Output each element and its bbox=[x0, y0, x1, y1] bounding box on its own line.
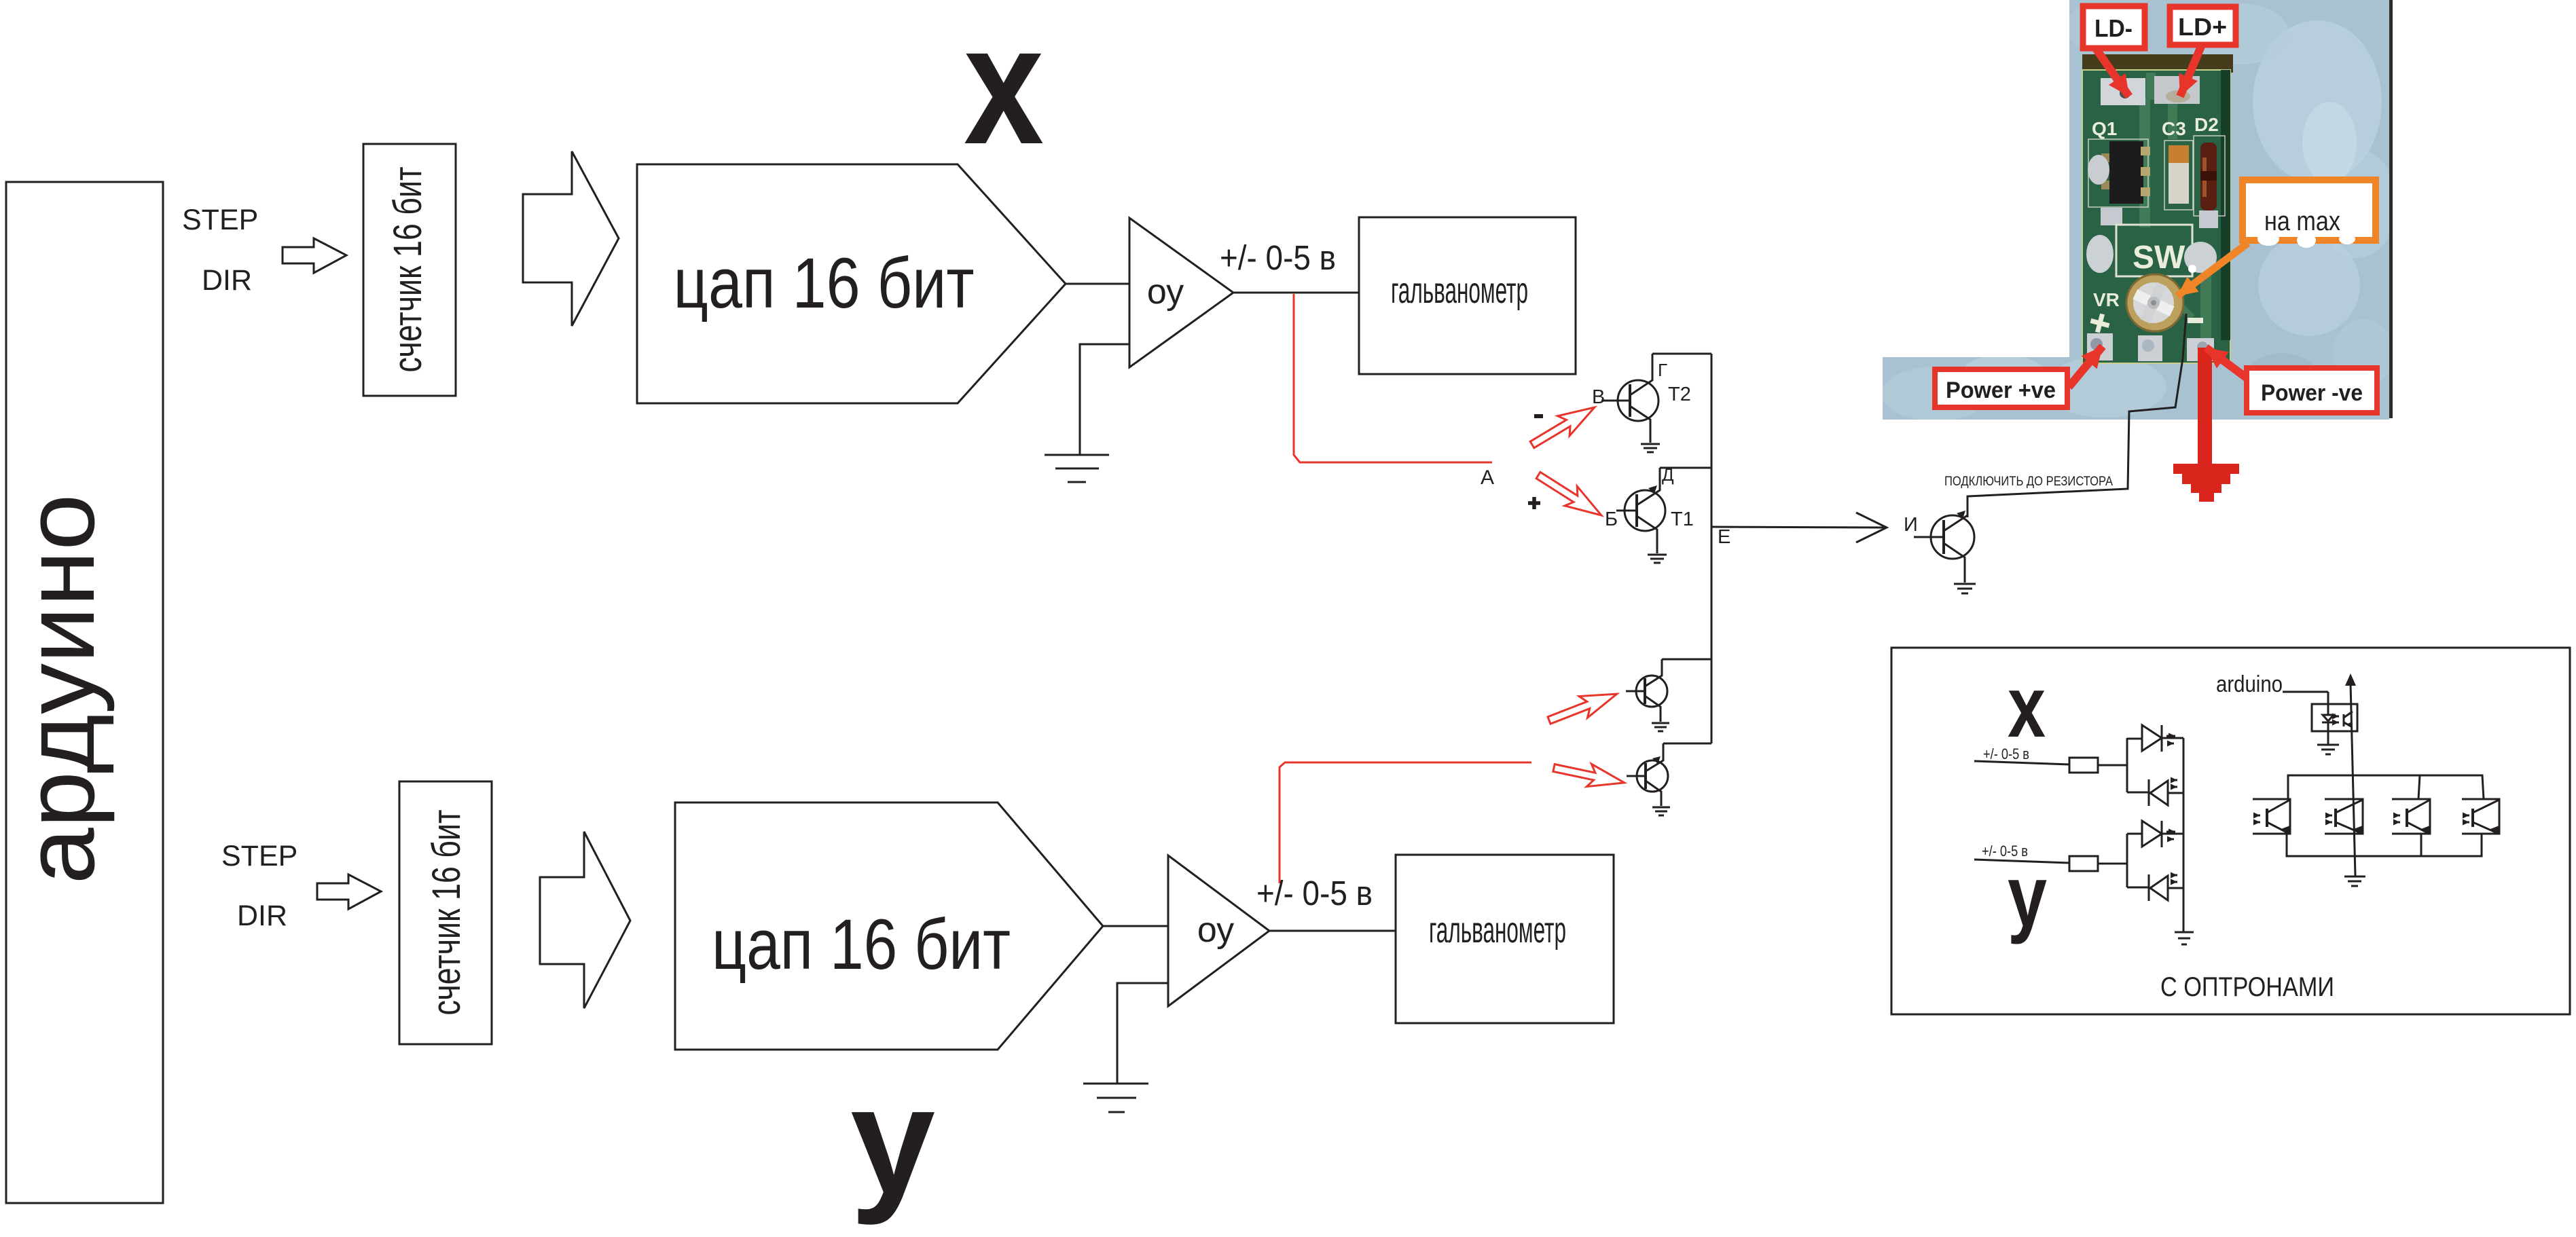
solder blob right bbox=[2184, 242, 2217, 273]
svg-text:у: у bbox=[850, 1054, 935, 1225]
PCB green board bbox=[2082, 70, 2230, 363]
wire Y to diodes bbox=[2098, 863, 2127, 865]
red wire Y to transistors bbox=[1280, 762, 1531, 883]
resistor X bbox=[2069, 758, 2098, 773]
arduino block bbox=[6, 182, 163, 1203]
red arrow to transistor 3 bbox=[1545, 683, 1621, 731]
arrow Power -ve bbox=[2206, 348, 2253, 383]
top rail bbox=[2288, 775, 2484, 799]
bottom rail drop box3 bbox=[2420, 834, 2423, 856]
svg-text:SW: SW bbox=[2133, 240, 2185, 276]
svg-text:цап 16 бит: цап 16 бит bbox=[712, 905, 1011, 984]
ground Y opamp bbox=[1083, 1084, 1148, 1112]
wire opamp inv input X bbox=[1080, 344, 1129, 455]
wire T2 collector to bus (node G) bbox=[1652, 353, 1711, 355]
svg-text:Power -ve: Power -ve bbox=[2261, 380, 2363, 406]
transistor I bbox=[1914, 515, 1974, 583]
plus silk mark bbox=[2088, 312, 2111, 335]
U1 LED bbox=[2322, 692, 2334, 745]
output arrowhead bbox=[1856, 513, 1887, 542]
silkscreen D2 frame bbox=[2194, 136, 2225, 216]
red arrow to B (T1) bbox=[1532, 466, 1608, 525]
svg-text:В: В bbox=[1592, 386, 1605, 408]
svg-text:DIR: DIR bbox=[202, 264, 252, 297]
transistor T2 bbox=[1601, 354, 1658, 443]
bottom rail bbox=[2287, 834, 2482, 856]
DAC pentagon X bbox=[637, 164, 1066, 403]
output wire node E bbox=[1711, 527, 1887, 528]
svg-text:+/- 0-5 в: +/- 0-5 в bbox=[1983, 745, 2029, 762]
Y diode left rail bbox=[2126, 834, 2128, 887]
bottom pad + bbox=[2087, 333, 2113, 361]
svg-text:+/- 0-5 в: +/- 0-5 в bbox=[1256, 874, 1373, 912]
ground mid bottom bbox=[2344, 876, 2365, 886]
silkscreen Q1 frame bbox=[2088, 139, 2148, 207]
svg-text:Д: Д bbox=[1662, 464, 1674, 485]
galvanometer box Y bbox=[1396, 855, 1614, 1023]
ground transistor 3 bbox=[1652, 723, 1669, 731]
minus silk mark bbox=[2188, 318, 2203, 323]
svg-text:гальванометр: гальванометр bbox=[1429, 910, 1566, 950]
svg-text:T1: T1 bbox=[1671, 509, 1694, 530]
svg-text:x: x bbox=[964, 0, 1044, 179]
solder blob left bbox=[2086, 235, 2114, 273]
photo right black border bbox=[2389, 0, 2393, 418]
X lower LED bbox=[2127, 779, 2183, 806]
svg-text:arduino: arduino bbox=[2216, 671, 2283, 697]
red arrow to B (T2) bbox=[1526, 397, 1600, 454]
small arrow Y bbox=[317, 874, 381, 909]
wire arduino to optocoupler U1 bbox=[2283, 691, 2328, 693]
arrow Power +ve bbox=[2069, 346, 2103, 387]
galvanometer box X bbox=[1359, 217, 1576, 374]
solder blob left of Q1 bbox=[2088, 155, 2109, 185]
optocoupler U1 box bbox=[2312, 704, 2357, 731]
resistor Y bbox=[2069, 856, 2098, 871]
U1 phototransistor bbox=[2344, 712, 2353, 726]
svg-text:на max: на max bbox=[2264, 206, 2340, 236]
mid pads bbox=[2101, 208, 2122, 225]
svg-text:оу: оу bbox=[1197, 910, 1234, 950]
PCB board top shadow band bbox=[2082, 54, 2233, 73]
X upper LED bbox=[2127, 725, 2183, 752]
ground right rail bbox=[2175, 932, 2194, 944]
pad LD- hole bbox=[2120, 88, 2130, 98]
svg-text:x: x bbox=[2008, 659, 2046, 756]
Y upper LED bbox=[2127, 821, 2183, 847]
svg-text:VR: VR bbox=[2093, 289, 2120, 310]
wire X to diodes bbox=[2098, 764, 2127, 767]
plus sign bbox=[1528, 497, 1540, 509]
vertical bus bbox=[1711, 354, 1713, 743]
svg-text:+/- 0-5 в: +/- 0-5 в bbox=[1220, 238, 1336, 277]
big block arrow X bbox=[523, 151, 619, 326]
svg-text:ардуино: ардуино bbox=[4, 494, 115, 885]
wire transistor 3 collector to bus bbox=[1662, 659, 1711, 661]
minus sign bbox=[1534, 414, 1543, 418]
transistor 3 bbox=[1626, 659, 1667, 722]
right rail to ground bbox=[2183, 738, 2185, 931]
photo background (laser driver PCB photo, L-shaped) bbox=[1881, 0, 2397, 421]
phototransistor 3 bbox=[2392, 799, 2430, 834]
opamp X bbox=[1129, 218, 1233, 367]
DAC pentagon Y bbox=[675, 802, 1103, 1050]
transistor T1 bbox=[1616, 468, 1665, 553]
red wire X to node A bbox=[1294, 294, 1492, 462]
ground X opamp bbox=[1045, 455, 1109, 482]
capacitor C3 body bbox=[2169, 145, 2189, 164]
svg-text:гальванометр: гальванометр bbox=[1391, 270, 1528, 311]
svg-text:STEP: STEP bbox=[182, 204, 258, 236]
label box na max bbox=[2243, 180, 2376, 240]
svg-text:Б: Б bbox=[1605, 509, 1618, 530]
ground T1 bbox=[1648, 555, 1667, 563]
counter box X bbox=[363, 144, 456, 396]
arrow na max (orange) bbox=[2177, 243, 2248, 296]
PCB traces bbox=[2139, 98, 2150, 227]
output arrow up from U1 bbox=[2351, 684, 2355, 876]
bottom pad mid bbox=[2138, 335, 2162, 361]
counter box Y bbox=[399, 781, 492, 1044]
big block arrow Y bbox=[540, 832, 630, 1008]
wire from VR pot down to transistor bbox=[1967, 314, 2186, 517]
wire opamp inv input Y bbox=[1117, 983, 1168, 1084]
svg-text:ПОДКЛЮЧИТЬ ДО РЕЗИСТОРА: ПОДКЛЮЧИТЬ ДО РЕЗИСТОРА bbox=[1944, 475, 2113, 489]
phototransistor 4 bbox=[2462, 799, 2499, 834]
svg-text:Power +ve: Power +ve bbox=[1946, 377, 2056, 403]
svg-text:LD-: LD- bbox=[2094, 14, 2133, 42]
optocoupler variant box bbox=[1891, 648, 2570, 1014]
arrow LD+ bbox=[2180, 45, 2202, 96]
label box LD+ bbox=[2170, 7, 2236, 45]
wire DAC to opamp X bbox=[1066, 283, 1129, 285]
ground transistor 4 bbox=[1652, 807, 1670, 815]
svg-text:А: А bbox=[1481, 466, 1494, 489]
arrow LD- bbox=[2095, 48, 2129, 96]
wire transistor 4 collector to bus bbox=[1663, 743, 1711, 745]
svg-text:счетчик 16 бит: счетчик 16 бит bbox=[424, 810, 469, 1016]
svg-text:С ОПТРОНАМИ: С ОПТРОНАМИ bbox=[2160, 972, 2334, 1002]
Y lower LED bbox=[2127, 874, 2183, 901]
svg-text:D2: D2 bbox=[2194, 114, 2219, 135]
diode D2 body bbox=[2200, 143, 2217, 210]
silkscreen C3 frame bbox=[2164, 141, 2193, 210]
wire DAC to opamp Y bbox=[1103, 925, 1168, 927]
top rail drop box3 bbox=[2418, 775, 2420, 799]
svg-text:T2: T2 bbox=[1668, 384, 1691, 405]
potentiometer VR bbox=[2126, 274, 2183, 331]
X diode left rail bbox=[2126, 738, 2128, 792]
svg-text:DIR: DIR bbox=[237, 900, 287, 932]
transistor Q1 body bbox=[2109, 141, 2143, 204]
phototransistor 1 bbox=[2253, 799, 2290, 834]
label box Power -ve bbox=[2247, 368, 2377, 413]
ground U1 LED bbox=[2317, 745, 2339, 754]
PCB dark right edge bbox=[2221, 70, 2230, 340]
svg-text:цап 16 бит: цап 16 бит bbox=[674, 244, 975, 323]
wire X input bbox=[1974, 761, 2069, 764]
pad LD- bbox=[2101, 78, 2145, 105]
svg-text:Q1: Q1 bbox=[2092, 118, 2117, 139]
phototransistor 2 bbox=[2325, 799, 2363, 834]
svg-text:STEP: STEP bbox=[221, 840, 297, 872]
svg-text:И: И bbox=[1904, 514, 1918, 536]
svg-text:Г: Г bbox=[1658, 360, 1667, 380]
svg-text:Е: Е bbox=[1718, 526, 1730, 548]
wire opamp out X bbox=[1233, 292, 1359, 294]
svg-text:C3: C3 bbox=[2162, 118, 2186, 139]
ground T2 bbox=[1641, 444, 1660, 452]
svg-text:LD+: LD+ bbox=[2178, 13, 2227, 41]
red arrow to transistor 4 bbox=[1551, 756, 1627, 794]
pad LD+ bbox=[2154, 76, 2200, 104]
ground transistor I bbox=[1954, 584, 1976, 593]
opamp Y bbox=[1168, 855, 1269, 1006]
wire opamp out Y bbox=[1269, 930, 1396, 932]
svg-text:счетчик 16 бит: счетчик 16 бит bbox=[386, 167, 430, 373]
wire T1 collector to bus (node D) bbox=[1660, 467, 1711, 469]
transistor 4 bbox=[1627, 743, 1668, 806]
svg-text:оу: оу bbox=[1147, 272, 1184, 312]
wire Y input bbox=[1974, 860, 2069, 863]
SW silkscreen box bbox=[2116, 225, 2192, 276]
bottom pad - bbox=[2187, 338, 2214, 361]
label box Power +ve bbox=[1935, 369, 2067, 407]
svg-text:+/- 0-5 в: +/- 0-5 в bbox=[1982, 843, 2028, 860]
thick red power arrow (down) bbox=[2198, 348, 2212, 464]
small arrow X bbox=[283, 238, 346, 273]
label box LD- bbox=[2083, 6, 2145, 48]
